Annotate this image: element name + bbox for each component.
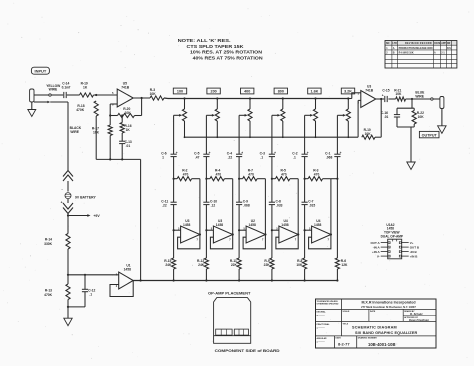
- svg-text:330K: 330K: [44, 242, 53, 246]
- svg-text:WIRE: WIRE: [415, 94, 424, 98]
- svg-text:WIRE: WIRE: [49, 88, 58, 92]
- svg-text:1458: 1458: [281, 223, 289, 227]
- svg-text:LTR: LTR: [393, 43, 398, 45]
- svg-text:10K: 10K: [125, 111, 132, 115]
- svg-text:SIX BAND GRAPHIC EQUALIZER: SIX BAND GRAPHIC EQUALIZER: [355, 331, 417, 335]
- svg-text:.01: .01: [384, 115, 389, 119]
- svg-text:+: +: [176, 151, 178, 155]
- svg-text:A: A: [393, 47, 395, 50]
- svg-text:470: 470: [183, 172, 189, 176]
- svg-text:V-: V-: [377, 254, 380, 258]
- svg-text:+: +: [340, 151, 342, 155]
- svg-text:741B: 741B: [365, 89, 374, 93]
- svg-text:+: +: [307, 151, 309, 155]
- svg-text:10B-4001-10B: 10B-4001-10B: [368, 342, 395, 347]
- svg-text:OTHERWISE SPECIFIED: OTHERWISE SPECIFIED: [317, 304, 340, 306]
- svg-text:1458: 1458: [216, 223, 224, 227]
- svg-text:200: 200: [211, 90, 217, 94]
- svg-text:+: +: [209, 151, 211, 155]
- svg-text:470K: 470K: [44, 293, 53, 297]
- svg-text:10K: 10K: [93, 130, 100, 134]
- svg-text:DATE: DATE: [434, 42, 441, 45]
- svg-text:+: +: [241, 151, 243, 155]
- svg-text:DUAL OP-AMP: DUAL OP-AMP: [381, 234, 404, 238]
- svg-text:.1: .1: [260, 155, 263, 159]
- svg-text:.1: .1: [89, 292, 92, 296]
- svg-text:400: 400: [244, 90, 250, 94]
- svg-text:.033: .033: [276, 203, 283, 207]
- svg-text:470: 470: [216, 172, 222, 176]
- svg-text:1K: 1K: [126, 128, 131, 132]
- svg-text:1458: 1458: [249, 223, 257, 227]
- svg-text:470: 470: [314, 172, 320, 176]
- svg-text:-IN A: -IN A: [373, 245, 381, 249]
- svg-text:DATE: DATE: [336, 337, 342, 340]
- svg-text:10K: 10K: [296, 263, 303, 267]
- svg-text:COMPONENT SIDE of BOARD: COMPONENT SIDE of BOARD: [215, 349, 281, 353]
- svg-text:OUT A: OUT A: [370, 241, 380, 245]
- svg-text:24K: 24K: [165, 263, 172, 267]
- svg-text:DRAWING NUMBER: DRAWING NUMBER: [358, 337, 378, 340]
- svg-text:Dave Friedman: Dave Friedman: [409, 318, 429, 322]
- svg-text:.068: .068: [326, 155, 333, 159]
- svg-text:DECIMAL: DECIMAL: [317, 310, 327, 313]
- svg-text:12K: 12K: [341, 263, 348, 267]
- svg-text:SCHEMATIC DIAGRAM: SCHEMATIC DIAGRAM: [352, 326, 397, 330]
- svg-text:100: 100: [177, 90, 183, 94]
- svg-text:9V BATTERY: 9V BATTERY: [75, 196, 96, 200]
- svg-text:8-2-77: 8-2-77: [338, 341, 350, 346]
- svg-text:22K: 22K: [264, 263, 271, 267]
- svg-text:R. Schulz: R. Schulz: [410, 312, 423, 316]
- svg-text:C-15: C-15: [382, 88, 389, 92]
- svg-text:.22: .22: [228, 155, 233, 159]
- svg-text:10K: 10K: [150, 92, 157, 96]
- svg-text:DATE: DATE: [370, 310, 376, 313]
- svg-text:3.2K: 3.2K: [344, 90, 352, 94]
- svg-text:FRACTIONAL: FRACTIONAL: [317, 323, 331, 326]
- svg-text:TITLE: TITLE: [343, 323, 349, 325]
- svg-text:INPUT: INPUT: [35, 69, 47, 74]
- svg-text:OP-AMP PLACEMENT: OP-AMP PLACEMENT: [208, 291, 251, 296]
- svg-text:NO: NO: [386, 43, 390, 45]
- svg-text:SCALE: SCALE: [343, 310, 350, 313]
- svg-text:WIRE: WIRE: [70, 130, 79, 134]
- svg-text:+IN A: +IN A: [372, 250, 380, 254]
- svg-text:CTS SPLD TAPER 15K: CTS SPLD TAPER 15K: [187, 44, 244, 49]
- svg-text:.01: .01: [126, 144, 131, 148]
- svg-text:1.6K: 1.6K: [311, 90, 319, 94]
- svg-text:470: 470: [281, 172, 287, 176]
- svg-text:10% RES. AT 25% ROTATION: 10% RES. AT 25% ROTATION: [190, 50, 262, 55]
- svg-text:741B: 741B: [121, 86, 130, 90]
- svg-text:R.S: R.S: [447, 48, 451, 50]
- svg-text:1458: 1458: [314, 223, 322, 227]
- svg-text:-: -: [61, 187, 62, 191]
- svg-text:470K: 470K: [76, 108, 85, 112]
- svg-text:.1: .1: [293, 155, 296, 159]
- svg-text:.015: .015: [309, 203, 316, 207]
- svg-text:R-6 WAS 10K: R-6 WAS 10K: [399, 52, 414, 55]
- svg-text:22K: 22K: [231, 263, 238, 267]
- svg-text:NOTE: ALL 'K' RES.: NOTE: ALL 'K' RES.: [178, 38, 231, 43]
- svg-text:ANGULAR: ANGULAR: [317, 337, 328, 340]
- svg-text:APP: APP: [441, 42, 446, 45]
- svg-text:± ———: ± ———: [317, 315, 326, 317]
- svg-text:10K: 10K: [395, 92, 402, 96]
- svg-text:0.1mf: 0.1mf: [62, 85, 72, 89]
- svg-text:± ———: ± ———: [317, 341, 326, 343]
- svg-text:1K: 1K: [83, 85, 88, 89]
- svg-text:1458: 1458: [124, 267, 132, 271]
- svg-text:24K: 24K: [198, 263, 205, 267]
- svg-text:PRODUCTION RELEASE 9000: PRODUCTION RELEASE 9000: [399, 47, 434, 50]
- svg-text:1458: 1458: [183, 223, 191, 227]
- svg-text:+9V: +9V: [93, 214, 100, 218]
- svg-text:.12: .12: [211, 203, 216, 207]
- svg-text:1: 1: [162, 155, 164, 159]
- svg-text:DR: DR: [447, 43, 451, 45]
- svg-text:+: +: [61, 201, 63, 205]
- svg-text:277 Mark Goodman St Rochest: 277 Mark Goodman St Rochester, N.Y. 1460…: [361, 305, 416, 309]
- svg-text:+: +: [274, 151, 276, 155]
- svg-text:M.X.R Innovations Incorporat: M.X.R Innovations Incorporated: [361, 301, 415, 305]
- svg-text:+IN B: +IN B: [410, 254, 419, 258]
- svg-text:470: 470: [248, 172, 254, 176]
- svg-text:800: 800: [278, 90, 284, 94]
- svg-text:10K: 10K: [418, 115, 425, 119]
- svg-text:.47: .47: [195, 155, 200, 159]
- svg-text:OUTPUT: OUTPUT: [422, 133, 438, 137]
- svg-text:.22: .22: [162, 203, 167, 207]
- svg-text:REVISION RECORD: REVISION RECORD: [405, 42, 432, 45]
- svg-text:-IN B: -IN B: [410, 250, 418, 254]
- svg-text:OUT B: OUT B: [410, 245, 420, 249]
- svg-text:.068: .068: [243, 203, 250, 207]
- svg-text:10K: 10K: [365, 132, 372, 136]
- svg-text:40% RES AT 75% ROTATION: 40% RES AT 75% ROTATION: [193, 55, 263, 60]
- svg-text:V+: V+: [410, 241, 414, 245]
- svg-text:± ———: ± ———: [317, 327, 326, 329]
- svg-text:B: B: [393, 52, 395, 55]
- svg-text:+: +: [382, 93, 384, 97]
